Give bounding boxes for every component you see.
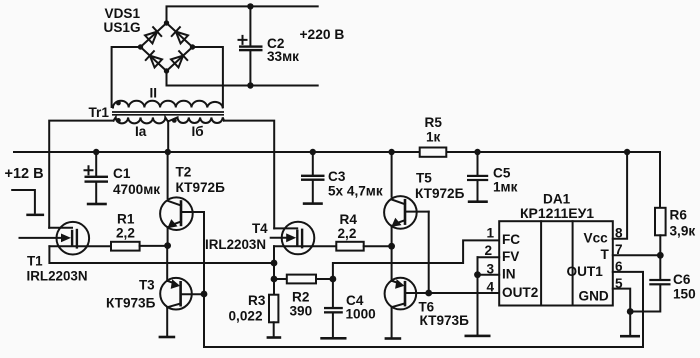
transformer winding Ib	[169, 117, 224, 123]
node bridge right	[190, 44, 195, 49]
svg-text:4: 4	[487, 279, 495, 294]
svg-text:Vcc: Vcc	[584, 231, 609, 246]
svg-text:КТ973Б: КТ973Б	[106, 296, 156, 311]
IC internal divider left	[540, 221, 542, 305]
svg-text:5х 4,7мк: 5х 4,7мк	[328, 184, 383, 199]
svg-text:1к: 1к	[426, 130, 441, 145]
svg-text:3: 3	[487, 261, 495, 276]
resistor R2	[274, 275, 333, 284]
svg-text:R3: R3	[248, 293, 266, 308]
svg-text:GND: GND	[579, 289, 609, 304]
wire T3 collector to ground	[166, 307, 168, 336]
wire T5 T6 base line down	[428, 212, 430, 293]
ground C3	[303, 202, 323, 205]
diode D4 bottom-right	[171, 51, 188, 68]
node bridge top	[164, 20, 169, 25]
node T6 base	[425, 290, 432, 297]
svg-text:T: T	[601, 247, 610, 262]
wire T6 emitter from junction	[391, 246, 393, 281]
transformer Tr1 core	[112, 112, 224, 115]
node bus C5 R5 right	[474, 149, 480, 155]
wire pin 8 Vcc to bus	[613, 152, 627, 239]
node T3 base	[201, 291, 208, 298]
wire T1 source down loop to sense line	[49, 246, 274, 263]
wire Ia left end to T1 drain column	[49, 121, 113, 228]
svg-text:OUT1: OUT1	[567, 264, 604, 279]
svg-text:КР1211ЕУ1: КР1211ЕУ1	[520, 205, 594, 221]
resistor R3	[269, 279, 278, 336]
node emitters T5 T6 R4	[388, 243, 395, 250]
diode D2 top-right	[172, 27, 189, 44]
ground pin5	[620, 335, 640, 338]
svg-text:R4: R4	[340, 212, 358, 227]
svg-text:R6: R6	[670, 208, 688, 223]
ground C5	[468, 200, 488, 203]
svg-text:II: II	[150, 86, 158, 101]
transistor T6 KT973B pnp	[385, 278, 500, 310]
wire T2 T3 base line down	[203, 212, 205, 294]
transformer winding II	[113, 101, 223, 108]
resistor R1	[111, 242, 140, 251]
svg-text:2,2: 2,2	[116, 226, 135, 241]
svg-text:150: 150	[673, 287, 696, 302]
transformer winding Ia	[114, 117, 168, 123]
IC internal divider right	[572, 221, 574, 305]
wire Ib right end to T4 drain column	[224, 121, 274, 229]
node bus center-tap T2 collector	[165, 149, 171, 155]
svg-text:+220 В: +220 В	[300, 27, 345, 42]
node bridge left	[138, 44, 143, 49]
wire top plus rail from bridge top to +220V	[167, 6, 318, 23]
ground FV IN	[465, 335, 491, 338]
wire sense node down to R3 R2 node	[273, 263, 275, 279]
svg-text:С3: С3	[328, 169, 346, 184]
wire bridge left node to transformer II left	[112, 47, 141, 107]
svg-text:IRL2203N: IRL2203N	[205, 237, 266, 252]
transistor T4 MOSFET IRL2203N	[271, 222, 337, 255]
pin 3 IN stub	[478, 274, 500, 276]
node pins 2 3	[474, 271, 481, 278]
svg-text:FV: FV	[502, 249, 519, 264]
phase dot winding Ia	[116, 118, 121, 123]
svg-text:+12 В: +12 В	[5, 166, 44, 182]
svg-text:4700мк: 4700мк	[113, 182, 160, 197]
IC DA1 KR1211EU1 box	[499, 221, 613, 305]
svg-text:OUT2: OUT2	[502, 285, 539, 300]
wire FC pin1 to R2 C4 node	[333, 240, 499, 279]
ground C1	[87, 203, 107, 206]
wire pin 5 GND to ground	[613, 289, 630, 335]
svg-text:С5: С5	[493, 166, 511, 181]
svg-text:Iа: Iа	[135, 124, 147, 139]
svg-text:Tr1: Tr1	[89, 105, 110, 120]
wire T5 emitter to junction	[391, 226, 393, 247]
input terminal contact bar	[26, 214, 44, 217]
node junction C2 bottom	[247, 82, 253, 88]
diode D3 bottom-left	[146, 51, 163, 68]
wire +12V bus	[14, 151, 660, 153]
wire center tap to +12V bus	[167, 121, 169, 152]
svg-text:КТ973Б: КТ973Б	[420, 313, 470, 328]
capacitor C4	[324, 279, 343, 337]
svg-text:33мк: 33мк	[267, 49, 299, 64]
node bus T5 collector	[388, 149, 394, 155]
svg-text:2: 2	[485, 243, 493, 258]
node pin7 R6 C6	[657, 252, 664, 259]
wire T5 collector from bus	[391, 152, 393, 197]
wire bridge right node to transformer II right	[193, 47, 223, 107]
capacitor C3	[301, 152, 325, 202]
pin 2 FV stub	[478, 256, 500, 258]
svg-text:Т2: Т2	[176, 164, 192, 179]
node R2 right C4 FC	[330, 276, 337, 283]
ground R3	[267, 336, 282, 339]
resistor R5	[420, 148, 447, 157]
ground C4	[320, 337, 346, 340]
svg-text:FC: FC	[502, 232, 520, 247]
wire T6 collector to ground	[391, 307, 393, 337]
node bus Vcc pin8 branch	[624, 149, 630, 155]
node sense line T1 T4	[271, 260, 278, 267]
node bridge bottom	[164, 68, 169, 73]
wire T4 source down to sense node	[273, 246, 275, 263]
svg-text:С6: С6	[673, 272, 691, 287]
transistor T3 KT973B pnp	[160, 278, 204, 310]
svg-text:Т3: Т3	[139, 278, 155, 293]
svg-text:R1: R1	[117, 212, 135, 227]
svg-text:US1G: US1G	[104, 20, 141, 35]
node R3 top R2 left	[271, 276, 278, 283]
transistor T5 KT972B npn	[384, 196, 429, 229]
svg-text:390: 390	[290, 304, 313, 319]
wire R1 to emitters junction	[140, 245, 168, 247]
capacitor C6	[630, 255, 670, 311]
svg-text:КТ972Б: КТ972Б	[415, 186, 465, 201]
phase dot winding Ib	[172, 118, 177, 123]
node bus C3	[310, 149, 316, 155]
svg-text:0,022: 0,022	[229, 309, 263, 324]
diode D1 top-left	[145, 27, 162, 44]
svg-text:3,9к: 3,9к	[670, 224, 696, 239]
svg-text:Т4: Т4	[252, 221, 268, 236]
svg-text:1мк: 1мк	[493, 180, 518, 195]
svg-text:VDS1: VDS1	[105, 6, 141, 21]
capacitor C1	[85, 152, 109, 203]
svg-text:Т5: Т5	[416, 171, 432, 186]
svg-text:Т1: Т1	[27, 254, 43, 269]
phase dot winding II	[116, 101, 121, 106]
svg-text:R2: R2	[292, 290, 310, 305]
node bus C1	[93, 149, 99, 155]
wire R4 to T5 T6 emitters junction	[364, 245, 392, 247]
svg-text:1: 1	[487, 225, 495, 240]
capacitor C5	[467, 152, 488, 200]
node junction C2 top	[247, 3, 253, 9]
svg-text:IRL2203N: IRL2203N	[27, 268, 88, 283]
transistor T1 MOSFET IRL2203N	[20, 222, 112, 255]
ground T6	[385, 337, 402, 340]
wire T3 emitter from junction	[166, 246, 168, 281]
svg-text:R5: R5	[425, 115, 443, 130]
svg-text:1000: 1000	[346, 307, 376, 322]
node pin5 C6 ground	[627, 308, 634, 315]
node emitters T2 T3 R1	[164, 242, 171, 249]
ground T3	[159, 336, 176, 339]
diode bridge VDS1 edges	[141, 23, 193, 71]
wire T2 collector from bus	[167, 152, 169, 198]
svg-text:IN: IN	[502, 267, 516, 282]
resistor R4	[336, 242, 363, 251]
wire T2 emitter to junction	[167, 227, 169, 246]
svg-text:Iб: Iб	[192, 124, 204, 139]
svg-text:КТ972Б: КТ972Б	[176, 180, 226, 195]
svg-text:C1: C1	[113, 166, 131, 181]
svg-text:2,2: 2,2	[338, 226, 357, 241]
input terminal +12V	[12, 190, 35, 213]
wire pin 6 OUT1 to bases rail	[204, 272, 643, 347]
wire bridge bottom node to minus rail	[167, 71, 318, 86]
transistor T2 KT972B npn	[160, 197, 204, 230]
resistor R6	[655, 152, 666, 255]
capacitor C2	[239, 6, 263, 85]
wire pin 7 T to R6 C6	[613, 254, 661, 256]
wire FV IN tie down to ground	[477, 257, 479, 334]
